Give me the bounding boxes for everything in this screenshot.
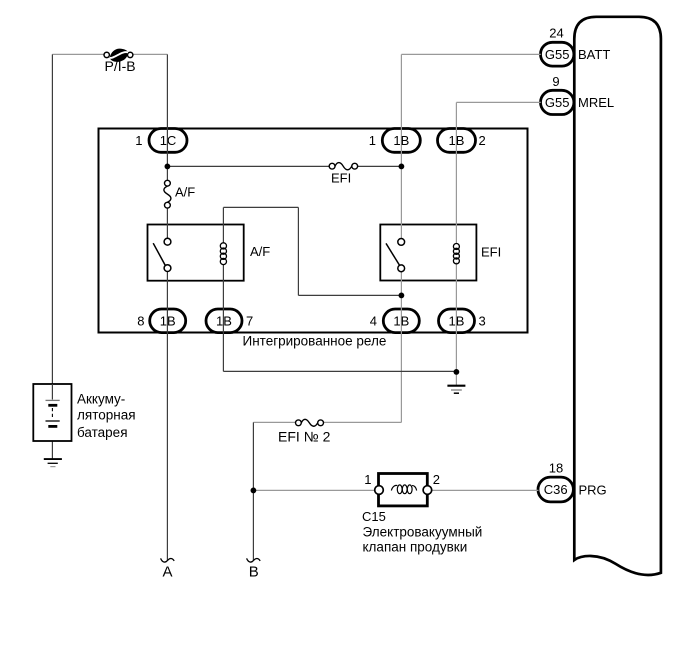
junction B [251, 488, 257, 494]
svg-text:Интегрированное реле: Интегрированное реле [243, 334, 387, 349]
svg-text:8: 8 [137, 313, 144, 328]
svg-text:1B: 1B [216, 313, 232, 328]
wire: A/F coil bottom through 1B pin7 [222, 265, 224, 372]
wire: P/I-B to 1C horizontal segment [133, 53, 168, 55]
svg-text:1C: 1C [160, 133, 177, 148]
svg-text:1B: 1B [393, 133, 409, 148]
EFI relay coil [453, 244, 459, 264]
svg-text:2: 2 [479, 133, 486, 148]
ECU connector block (right side) [574, 17, 661, 575]
svg-text:C15: C15 [362, 509, 386, 524]
ground (relay) [447, 386, 465, 394]
battery feed stub inside box [51, 384, 53, 400]
svg-text:4: 4 [370, 313, 377, 328]
connector 1B pin1 oval [382, 129, 420, 153]
wire: junction through 1B pin4 down to EFI No2 level [400, 295, 402, 422]
connector 1B pin4 oval [383, 309, 419, 333]
wire: EFI No2 horizontal left part [253, 421, 295, 423]
svg-text:1: 1 [135, 133, 142, 148]
wire: EFI No2 horizontal right part [323, 421, 401, 423]
svg-text:7: 7 [246, 313, 253, 328]
wire: A/F coil stem up [222, 207, 224, 242]
svg-text:P/I-B: P/I-B [105, 58, 136, 74]
junction ground [454, 369, 460, 375]
integrated relay box [99, 129, 528, 333]
svg-text:Аккуму-: Аккуму- [77, 392, 125, 407]
svg-text:1B: 1B [449, 133, 465, 148]
svg-text:3: 3 [479, 313, 486, 328]
C15 valve box [379, 474, 428, 506]
wire: C15 pin2 to C36 PRG [432, 489, 539, 491]
svg-text:1B: 1B [160, 313, 176, 328]
wire: A/F switch bottom through 1B pin8 to A [166, 272, 168, 561]
svg-text:А: А [162, 564, 172, 581]
svg-text:EFI: EFI [331, 171, 351, 186]
C15 contacts [375, 486, 384, 495]
wire: MREL vertical to 1B pin2 [455, 102, 457, 128]
wire: battery negative to ground [51, 427, 53, 459]
svg-text:ляторная: ляторная [77, 408, 136, 423]
svg-text:G55: G55 [545, 47, 570, 62]
wire: B junction to C15 pin1 [253, 489, 374, 491]
A/F switch blade [153, 243, 165, 265]
EFI relay box [380, 225, 476, 281]
wire: pin7 to ground junction [223, 370, 456, 372]
svg-text:BATT: BATT [578, 47, 610, 62]
A/F relay coil [220, 243, 226, 265]
wire: EFI switch bottom to junction [400, 268, 402, 296]
svg-text:клапан продувки: клапан продувки [363, 540, 468, 555]
svg-text:В: В [249, 564, 259, 581]
connector G55 BATT oval [541, 42, 574, 66]
svg-text:PRG: PRG [579, 483, 607, 498]
wire: A/F coil link horizontal [223, 206, 298, 208]
svg-text:G55: G55 [545, 95, 570, 110]
svg-text:C36: C36 [544, 482, 568, 497]
wire: 1B pin2 down through EFI coil top [455, 129, 457, 244]
svg-text:1B: 1B [449, 313, 465, 328]
EFI switch contacts [398, 239, 405, 246]
wire: P/I-B feed horizontal left segment [52, 53, 104, 55]
svg-text:A/F: A/F [250, 244, 270, 259]
wire: BATT horizontal [401, 53, 540, 55]
svg-text:1B: 1B [393, 313, 409, 328]
wire: down through 1C to A/F fuse [166, 54, 168, 180]
svg-text:Электровакуумный: Электровакуумный [363, 525, 483, 540]
EFI switch blade [386, 243, 399, 265]
A/F relay box [148, 225, 244, 281]
connector 1B pin2 oval [438, 129, 476, 153]
connector 1B pin7 oval [206, 309, 242, 333]
connector 1B pin3 oval [439, 309, 475, 333]
junction 1C/EFI [165, 164, 171, 170]
svg-text:18: 18 [549, 461, 563, 476]
wire: MREL horizontal [456, 101, 540, 103]
wire: link horizontal to EFI junction [298, 294, 401, 296]
svg-text:24: 24 [549, 26, 563, 41]
connector G55 MREL oval [541, 90, 574, 114]
wire: EFI horizontal run left [167, 165, 329, 167]
fuse EFI [329, 163, 357, 170]
fuse EFI No 2 [296, 419, 324, 426]
svg-text:1: 1 [369, 133, 376, 148]
battery plates [46, 400, 60, 426]
svg-text:EFI: EFI [481, 245, 501, 260]
wire: A/F fuse to switch contact [166, 208, 168, 238]
ground (battery) [44, 459, 62, 467]
connector hook A [161, 558, 175, 562]
connector hook B [247, 558, 261, 562]
svg-text:9: 9 [552, 74, 559, 89]
wire: EFI No2 corner down through B junction to B [252, 422, 254, 560]
wire: EFI coil bottom through 1B pin3 to ground [455, 263, 457, 386]
svg-text:1: 1 [364, 472, 371, 487]
connector 1B pin8 oval [150, 309, 186, 333]
A/F switch contacts [164, 238, 171, 245]
battery box [33, 384, 71, 441]
wire: link vertical [297, 207, 299, 295]
connector 1C pin1 oval [149, 129, 187, 153]
connector C36 PRG oval [538, 477, 573, 502]
C15 coil [391, 485, 416, 494]
svg-text:2: 2 [433, 472, 440, 487]
svg-text:MREL: MREL [578, 95, 614, 110]
svg-text:EFI № 2: EFI № 2 [278, 429, 331, 445]
junction EFI switch out [399, 293, 405, 299]
wire: EFI horizontal run right [358, 165, 402, 167]
junction 1B1/EFI [399, 164, 405, 170]
wire: BATT vertical down through 1B pin1 to EFI relay switch [400, 54, 402, 242]
fuse A/F [164, 180, 171, 208]
wire: battery positive up [51, 54, 53, 399]
svg-text:A/F: A/F [175, 185, 195, 200]
fusible link P/I-B [104, 49, 133, 62]
svg-text:батарея: батарея [77, 425, 128, 440]
